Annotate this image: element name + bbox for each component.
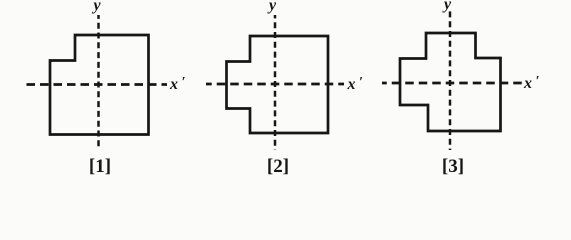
figure 1 shape outline (square with top-left notch) [50, 35, 149, 135]
svg-text:y: y [91, 0, 101, 14]
figure 2 shape outline (square with left tab) [227, 36, 329, 133]
svg-text:[2]: [2] [267, 156, 289, 177]
svg-text:[1]: [1] [89, 156, 111, 177]
svg-text:[3]: [3] [442, 156, 464, 177]
figure 2 x-axis (dashed horizontal) [206, 83, 344, 86]
figure 1 x-axis (dashed horizontal) [27, 83, 168, 86]
svg-text:x′: x′ [347, 75, 364, 93]
figure 1 y-axis (dashed vertical) [97, 15, 100, 148]
figure 2 y-axis (dashed vertical) [274, 15, 277, 150]
figure 3 y-axis (dashed vertical) [449, 10, 452, 150]
svg-text:y: y [442, 0, 452, 13]
svg-text:y: y [267, 0, 277, 14]
svg-text:x′: x′ [523, 74, 540, 92]
svg-text:x′: x′ [169, 75, 186, 93]
figure 3 x-axis (dashed horizontal) [382, 82, 522, 85]
figure 3 shape outline (square with top tab and left tab) [400, 33, 501, 131]
